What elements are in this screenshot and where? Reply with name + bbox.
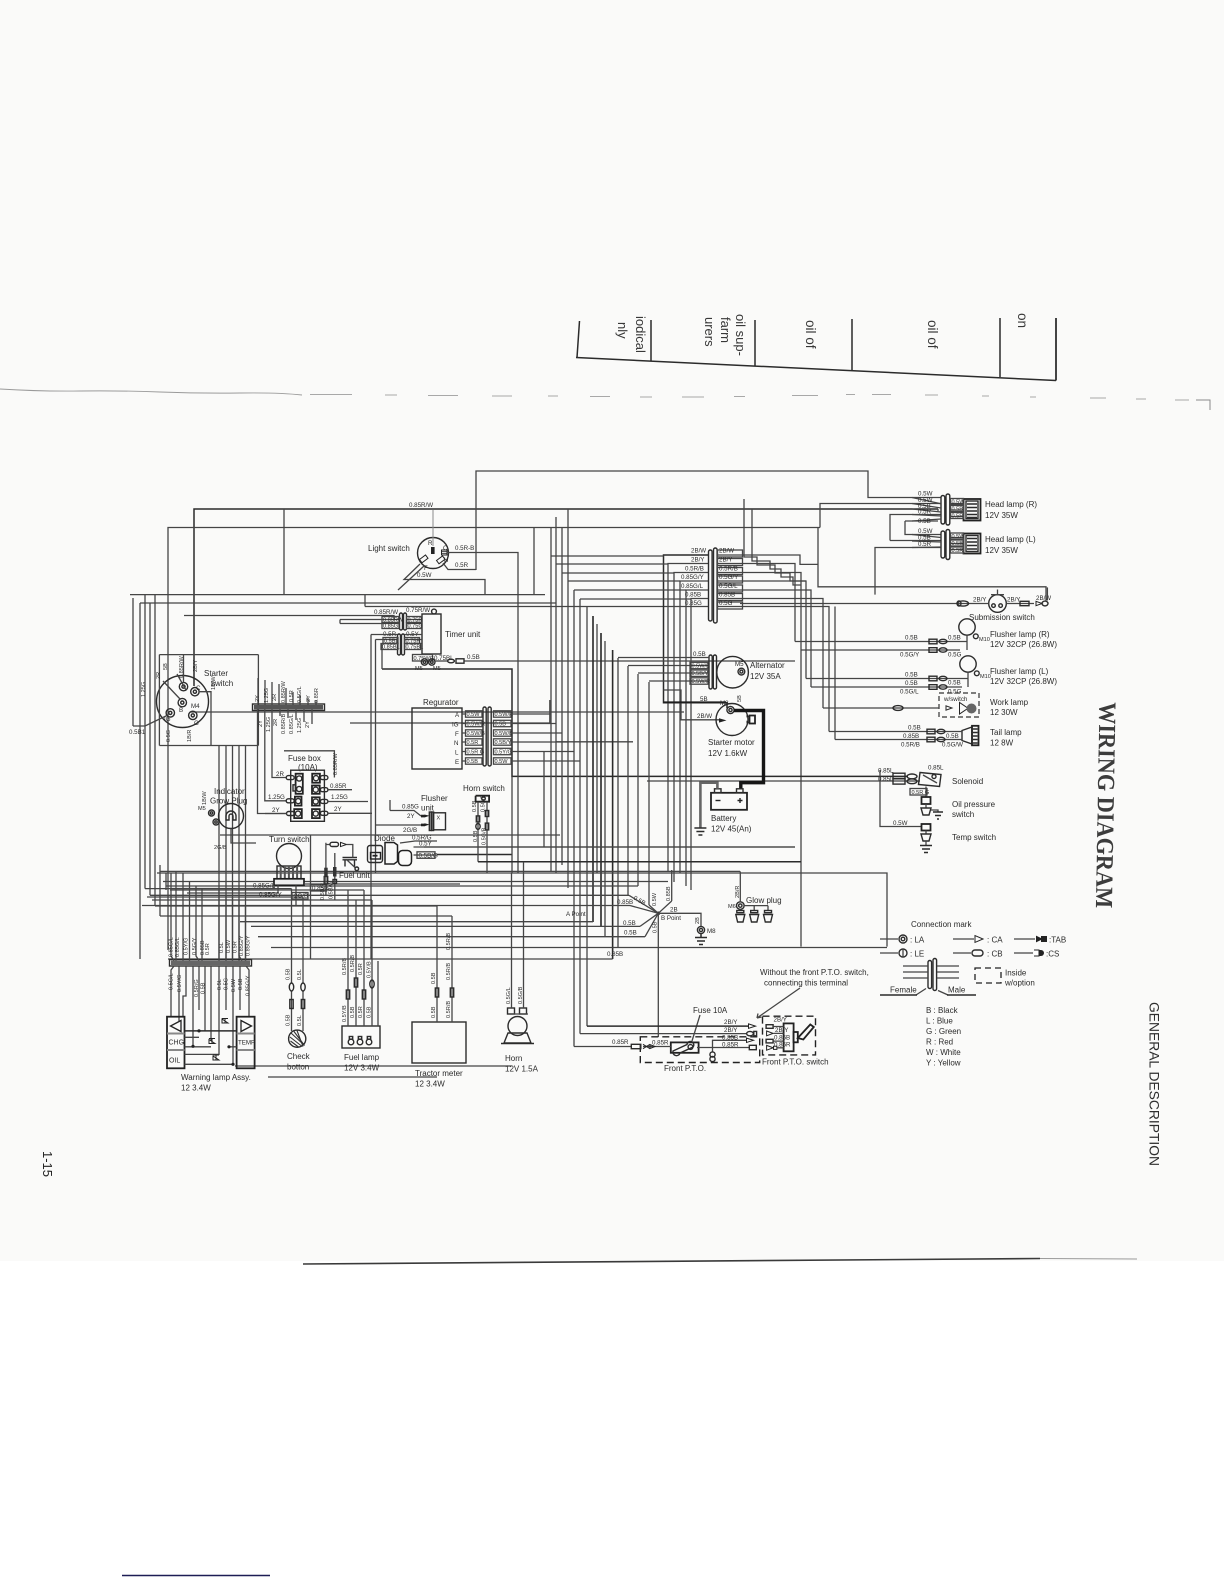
label 0.5B hrr boxed <box>951 506 964 513</box>
wire horn feeds <box>512 862 524 1008</box>
starter bar pins up <box>258 678 316 705</box>
bottom trunk y906 <box>155 905 437 907</box>
timer upper connector <box>400 613 407 630</box>
svg-text:W : White: W : White <box>926 1048 961 1057</box>
svg-text:0.85R/W: 0.85R/W <box>179 656 185 678</box>
svg-text:0.5G/Y: 0.5G/Y <box>900 652 919 659</box>
svg-text:0.5R: 0.5R <box>205 943 211 955</box>
svg-text:0.5W: 0.5W <box>652 892 658 906</box>
svg-text:iodical: iodical <box>633 316 648 353</box>
svg-text:0.5R/B: 0.5R/B <box>446 933 452 950</box>
svg-text:Warning lamp Assy.: Warning lamp Assy. <box>181 1073 251 1082</box>
svg-text:0.85R: 0.85R <box>652 1040 669 1047</box>
svg-text:0.5Y/B: 0.5Y/B <box>342 1005 348 1022</box>
junction dots warning <box>191 1029 234 1066</box>
svg-text:0.85R/B: 0.85R/B <box>281 714 287 734</box>
wire head lamp R to L 0.5B <box>905 509 942 535</box>
svg-text:0.5W: 0.5W <box>226 939 232 953</box>
svg-text:Y : Yellow: Y : Yellow <box>926 1059 961 1068</box>
svg-text:1-15: 1-15 <box>40 1151 55 1177</box>
svg-text:M5: M5 <box>433 666 441 672</box>
svg-text:0.85R: 0.85R <box>722 1042 739 1049</box>
svg-text:2Y: 2Y <box>306 695 312 702</box>
svg-text:0.5G/L: 0.5G/L <box>900 689 919 696</box>
svg-text:2B/Y: 2B/Y <box>719 557 732 564</box>
wire pto row1 2B/Y <box>587 1025 748 1027</box>
starter connector bar <box>253 704 325 711</box>
svg-text:N: N <box>454 740 458 747</box>
wire vertical x534 <box>533 528 535 595</box>
scan fold artifact dashes <box>0 389 302 395</box>
svg-text:0.5R: 0.5R <box>952 514 964 520</box>
wire B diag 1 <box>629 895 658 913</box>
flusher lamp L assembly <box>960 656 1058 686</box>
svg-text:B : Black: B : Black <box>926 1006 959 1015</box>
wire note arrow <box>757 988 800 1018</box>
wire 0.5R <box>443 563 476 570</box>
svg-text:Starter motor: Starter motor <box>708 738 755 747</box>
wire flusher R pin <box>966 635 968 650</box>
wire loop x544 <box>543 752 545 848</box>
front PTO switch assembly <box>762 1016 829 1066</box>
wire starter box right <box>257 655 259 746</box>
svg-text:0.5Y/G: 0.5Y/G <box>177 975 183 992</box>
svg-text:2B/W: 2B/W <box>691 548 706 555</box>
label 0.85BL boxed <box>381 644 400 651</box>
svg-text:0.5B: 0.5B <box>473 830 479 842</box>
regulator assembly <box>412 698 462 769</box>
svg-text:w/option: w/option <box>1004 979 1035 988</box>
svg-text:12 3.4W: 12 3.4W <box>415 1080 445 1089</box>
starter motor assembly <box>708 695 755 758</box>
wire fuse right row4 <box>328 812 372 814</box>
wire y847 long <box>424 846 795 848</box>
svg-text:Front P.T.O. switch: Front P.T.O. switch <box>762 1058 829 1067</box>
svg-text:: CB: : CB <box>987 950 1003 959</box>
connector pto row2 <box>747 1031 757 1035</box>
wire light switch lower diagonal <box>398 566 424 590</box>
wire row links to mid verticals <box>551 556 691 599</box>
timer pin circle <box>432 609 437 614</box>
bottom trunk y916 <box>160 915 452 917</box>
svg-text:0.5B: 0.5B <box>905 672 918 679</box>
svg-text:0.5B: 0.5B <box>693 651 706 658</box>
wire flusher R row2 <box>801 649 960 651</box>
tail lamp assembly <box>962 726 1022 748</box>
svg-text:0.5G: 0.5G <box>166 730 172 742</box>
svg-text:G : Green: G : Green <box>926 1027 961 1036</box>
oil pressure switch assembly <box>921 787 996 820</box>
legend LA <box>880 935 925 945</box>
diode symbol warning1 <box>209 1039 215 1044</box>
front PTO assembly <box>640 1037 759 1073</box>
connector C1 bars <box>709 548 718 623</box>
svg-text:2B: 2B <box>670 907 678 914</box>
svg-text:0.5G/Y: 0.5G/Y <box>192 937 198 955</box>
wire B diag 5 <box>640 913 658 926</box>
svg-text:2B/W: 2B/W <box>697 713 712 720</box>
wire check left <box>291 889 293 1031</box>
svg-text:0.5B: 0.5B <box>467 654 480 661</box>
svg-text:H: H <box>444 557 448 564</box>
bottom trunk y886 <box>166 885 638 887</box>
warning bar wires below <box>171 966 249 1064</box>
wire vertical x365 <box>364 595 366 607</box>
svg-text:0.85G/L: 0.85G/L <box>169 937 175 957</box>
wire B diag 3 <box>658 870 671 913</box>
bottom trunk y1077 <box>268 1076 437 1078</box>
svg-text::TAB: :TAB <box>1049 936 1066 945</box>
svg-text:2Y: 2Y <box>407 813 415 820</box>
svg-text:2B/Y: 2B/Y <box>691 557 704 564</box>
svg-text:0.5Y/B: 0.5Y/B <box>367 961 373 978</box>
regulator left labels <box>466 711 486 765</box>
svg-text:Inside: Inside <box>1005 969 1027 978</box>
svg-text:0.85G/Y: 0.85G/Y <box>259 892 282 899</box>
svg-text:E: E <box>455 759 459 766</box>
wire C1 row5 left <box>686 590 709 886</box>
svg-text:Female: Female <box>890 986 917 995</box>
wire fuse right row3 <box>328 801 368 803</box>
wire diode out 0.5B/G <box>414 854 438 856</box>
wire fuse right riser <box>697 1040 746 1047</box>
svg-text:5B: 5B <box>163 663 169 670</box>
svg-text:2Y: 2Y <box>258 720 264 727</box>
svg-text:0.85R/W: 0.85R/W <box>333 753 339 775</box>
svg-text:5B: 5B <box>700 696 708 703</box>
svg-text:0.85G: 0.85G <box>383 624 398 630</box>
fuse rect fuel d <box>333 880 337 884</box>
timer unit assembly <box>422 614 481 654</box>
svg-text:0.5R/B: 0.5R/B <box>719 566 738 573</box>
svg-text:0.5W/R: 0.5W/R <box>692 679 711 685</box>
B point junction <box>566 911 681 922</box>
wire head lamp L row3 <box>875 548 942 595</box>
light switch body <box>368 538 449 573</box>
svg-text:1B/W: 1B/W <box>211 676 217 690</box>
wire tail row1 <box>829 731 962 733</box>
wire fusebox top 0.85R/W <box>284 751 334 778</box>
temp switch assembly <box>920 824 996 853</box>
wire vertical x284 <box>283 509 285 595</box>
label 0.85R(W) boxed <box>382 617 404 624</box>
wire head lamp L row2 <box>890 540 942 542</box>
wire trunk y527 <box>168 528 820 951</box>
svg-text:0.85B: 0.85B <box>666 886 672 901</box>
svg-text:0.5R: 0.5R <box>289 690 295 702</box>
svg-text:0.5B/W: 0.5B/W <box>329 880 335 899</box>
svg-text:2B: 2B <box>695 917 701 924</box>
svg-text:0.5W/R: 0.5W/R <box>495 712 514 718</box>
label 0.5W/R alt <box>690 678 710 685</box>
svg-text:5B: 5B <box>737 695 743 702</box>
svg-text:1B/R: 1B/R <box>187 730 193 742</box>
svg-text:0.5R: 0.5R <box>358 963 364 975</box>
label 0.5B/Y alt <box>690 670 709 677</box>
wire 0.5R-B <box>447 553 518 595</box>
wire dark y669 to solenoid <box>382 669 908 776</box>
wire step y564 <box>717 555 818 564</box>
head lamp L assembly <box>941 530 1036 560</box>
svg-text:0.85B: 0.85B <box>617 899 633 906</box>
mid vertical bundle <box>551 556 649 1047</box>
svg-text:0.85B: 0.85B <box>607 951 623 958</box>
connector work <box>893 706 952 711</box>
svg-text:0.5B: 0.5B <box>908 725 921 732</box>
svg-text:Glow plug: Glow plug <box>746 896 782 905</box>
svg-text:12V 45(An): 12V 45(An) <box>711 825 752 834</box>
wire starter box bottom <box>159 745 258 747</box>
svg-text:Indicator: Indicator <box>214 787 245 796</box>
svg-text:M4: M4 <box>191 703 200 710</box>
connectors solenoid row1 <box>893 773 917 779</box>
label 0.5B/G boxed <box>417 852 438 860</box>
svg-text:Horn: Horn <box>505 1054 522 1063</box>
svg-text:0.5W: 0.5W <box>952 500 966 506</box>
wire fuel unit top fuse <box>326 843 330 895</box>
wire work lamp row <box>823 707 939 709</box>
wire tractor feeds <box>437 906 452 1022</box>
svg-text:1.25G: 1.25G <box>141 682 147 697</box>
wire flusher unit lower feed <box>376 824 421 826</box>
wire C1 row3 right long vertical x801 <box>717 573 801 947</box>
label 0.5R hlr boxed <box>951 547 964 554</box>
svg-text:0.5B: 0.5B <box>905 680 918 687</box>
wire flusher L row2 <box>811 686 962 688</box>
wire timer 0.5B long <box>464 660 795 662</box>
fuse capsule fuel <box>330 842 339 846</box>
svg-text:1B/W: 1B/W <box>202 791 208 805</box>
svg-text:F: F <box>455 731 459 738</box>
svg-text:0.85R/W: 0.85R/W <box>281 681 287 703</box>
fuse check right <box>301 1000 304 1009</box>
regulator connector bars <box>483 707 491 766</box>
wire regulator rows left <box>462 714 466 761</box>
wire temp switch feed 0.5W <box>880 770 921 827</box>
svg-text:0.5B: 0.5B <box>238 978 244 990</box>
diode symbol warning3 <box>222 1019 228 1024</box>
wire head lamp L fan <box>912 535 941 548</box>
wire battery minus to ground <box>700 783 717 828</box>
svg-text:: LA: : LA <box>910 936 925 945</box>
fuse fuel c <box>362 990 365 999</box>
svg-text:2Y: 2Y <box>255 695 261 702</box>
svg-text:0.5R: 0.5R <box>233 941 239 953</box>
svg-text:12V 35W: 12V 35W <box>985 546 1018 555</box>
svg-text:0.5B: 0.5B <box>948 680 961 687</box>
wire trunk y594.6 <box>130 594 545 596</box>
svg-text:0.5W: 0.5W <box>467 712 481 718</box>
svg-text:1.25G: 1.25G <box>264 688 270 703</box>
wire timer lower verticals <box>371 635 382 960</box>
svg-text:0.5W: 0.5W <box>231 978 237 992</box>
bottom trunk y871 <box>160 870 740 872</box>
wire alternator row4 <box>649 680 709 682</box>
bottom trunk y936 <box>258 936 645 938</box>
svg-text:0.85G/Y: 0.85G/Y <box>239 935 245 956</box>
svg-text:urers: urers <box>702 317 717 347</box>
head lamp L right stubs <box>950 538 964 550</box>
svg-text:0.5G/Y: 0.5G/Y <box>719 574 738 581</box>
wire glow feed <box>739 871 741 901</box>
svg-text:12 8W: 12 8W <box>990 739 1014 748</box>
svg-text:0.5B: 0.5B <box>905 635 918 642</box>
wire turn switch right 0.85G <box>304 883 460 885</box>
wire flusher L pin <box>967 672 969 687</box>
wire 2B/W starter conn <box>719 718 727 722</box>
check button assembly <box>287 1030 311 1071</box>
svg-text:Oil pressure: Oil pressure <box>952 800 996 809</box>
table fragment bottom slant <box>576 318 1056 381</box>
warning bar wires above <box>171 871 246 960</box>
wire fuel unit drop wires <box>334 853 336 900</box>
wire y741.8 <box>556 741 633 743</box>
svg-text:0.5W: 0.5W <box>495 759 509 765</box>
svg-text:0.5G/L: 0.5G/L <box>506 987 512 1004</box>
svg-text:0.5W: 0.5W <box>893 820 908 827</box>
svg-text:0.85G: 0.85G <box>685 600 702 607</box>
svg-text:Front P.T.O.: Front P.T.O. <box>664 1064 706 1073</box>
svg-text:0.5B/Y: 0.5B/Y <box>692 671 709 677</box>
horn assembly <box>501 1008 539 1074</box>
svg-text:0.5W: 0.5W <box>952 534 966 540</box>
svg-text:0.5B: 0.5B <box>367 1006 373 1018</box>
svg-text:0.85G: 0.85G <box>402 804 419 811</box>
label 0.85G boxed <box>382 623 399 630</box>
legend colors <box>926 1006 961 1068</box>
fuse fuel b <box>354 978 357 987</box>
wire turn switch left 0.85G/L <box>172 885 274 888</box>
wire C1 row6 right to work lamp <box>717 599 823 709</box>
arrow pto row3 <box>747 1038 754 1042</box>
wire turn switch left2 <box>187 885 278 893</box>
M8 terminal <box>697 926 716 935</box>
wire timer lower rows <box>371 635 422 644</box>
bottom trunk y900 <box>152 899 372 901</box>
timer LA connectors M5 <box>415 659 441 672</box>
connector fr1 <box>929 639 947 644</box>
wire starter box top <box>159 654 258 656</box>
wire B diag 6 <box>645 913 658 936</box>
wire 5B thick <box>664 701 727 703</box>
svg-text:0.85B: 0.85B <box>722 1035 738 1042</box>
wire 2B/W starter <box>664 690 720 720</box>
wire submission hook up <box>1046 587 1048 600</box>
svg-text:2B/Y: 2B/Y <box>775 1027 788 1034</box>
svg-text:0.5W/B: 0.5W/B <box>467 731 486 737</box>
svg-text:0.5G/B: 0.5G/B <box>482 827 488 845</box>
svg-text:2Y: 2Y <box>334 806 342 813</box>
glow plug assembly <box>728 896 782 922</box>
wire flusher L row1 <box>806 678 968 680</box>
svg-text:A Point: A Point <box>566 911 586 918</box>
svg-text:2B/W: 2B/W <box>1036 595 1051 602</box>
svg-text:12 30W: 12 30W <box>990 708 1018 717</box>
wire alternator row1 <box>618 657 709 659</box>
wire step x818 to submission <box>818 528 1046 601</box>
connector t1 <box>927 729 945 734</box>
fuse fuel a <box>346 990 349 999</box>
svg-text:1.25G: 1.25G <box>297 718 303 733</box>
wire mid verticals upper extensions <box>551 509 568 581</box>
wire head lamp R fan <box>912 498 941 522</box>
svg-text:w/switch: w/switch <box>943 696 968 703</box>
svg-text:0.75R/W: 0.75R/W <box>406 607 430 614</box>
svg-text:12V 32CP (26.8W): 12V 32CP (26.8W) <box>990 640 1057 649</box>
svg-text:0.85R: 0.85R <box>774 1041 791 1048</box>
svg-text:0.5G/W: 0.5G/W <box>942 742 963 749</box>
svg-text:unit: unit <box>421 804 435 813</box>
svg-text:0.5R: 0.5R <box>358 1006 364 1018</box>
svg-text:0.5G: 0.5G <box>948 652 962 659</box>
svg-text:R : Red: R : Red <box>926 1038 953 1047</box>
svg-text:12V 32CP (26.8W): 12V 32CP (26.8W) <box>990 677 1057 686</box>
svg-text:0.5G/L: 0.5G/L <box>719 583 738 590</box>
svg-text:: CA: : CA <box>987 936 1003 945</box>
svg-text:0.5R/B: 0.5R/B <box>350 955 356 972</box>
svg-text:Flusher lamp (L): Flusher lamp (L) <box>990 667 1049 676</box>
wire submission right <box>1006 603 1034 605</box>
head lamp R right stubs <box>950 504 964 517</box>
svg-text:Male: Male <box>948 986 966 995</box>
label 0.5R G boxed <box>910 789 929 797</box>
svg-text:X: X <box>437 816 441 822</box>
svg-text:0.85L: 0.85L <box>878 768 894 775</box>
wire warning cross <box>185 1030 237 1032</box>
svg-text:0.5R G: 0.5R G <box>467 750 485 756</box>
svg-text:0.5B: 0.5B <box>948 635 961 642</box>
svg-text:0.5W: 0.5W <box>417 572 432 579</box>
wire pto left feed 0.85R <box>574 1046 671 1048</box>
svg-text:12V 1.6kW: 12V 1.6kW <box>708 749 748 758</box>
svg-text:0.5W/B: 0.5W/B <box>495 731 514 737</box>
svg-text:0.5L: 0.5L <box>297 1015 303 1026</box>
connector fr2 <box>929 648 947 653</box>
svg-text:Work lamp: Work lamp <box>990 698 1029 707</box>
wire diode out top 0.5R/G <box>400 841 437 843</box>
horn switch assembly <box>463 784 505 873</box>
svg-text:Submission switch: Submission switch <box>969 613 1035 622</box>
wire staircase extra <box>752 509 801 585</box>
wire 2B right <box>658 913 701 926</box>
wire regulator rows right <box>511 714 580 761</box>
table fragment border columns <box>577 318 1056 381</box>
diode assembly <box>368 834 412 866</box>
label 2G/B boxed <box>292 893 308 901</box>
svg-text:2Y: 2Y <box>305 721 311 728</box>
svg-text:0.5R: 0.5R <box>918 509 932 516</box>
svg-text:0.85BL: 0.85BL <box>382 645 400 651</box>
footer underline <box>122 1575 270 1577</box>
svg-text:2B/Y: 2B/Y <box>724 1019 737 1026</box>
bottom trunk y895 <box>150 894 629 896</box>
svg-text:oil of: oil of <box>925 320 940 349</box>
alternator connector bar <box>709 655 717 689</box>
svg-text:0.85R: 0.85R <box>612 1039 629 1046</box>
wire starter IG diagonal <box>133 598 167 726</box>
svg-text:farm: farm <box>718 317 733 343</box>
svg-text:0.85G/L: 0.85G/L <box>253 883 276 890</box>
battery assembly <box>711 789 752 834</box>
wire solenoid row2 <box>647 780 920 782</box>
wire timer 0.5B out <box>435 660 448 662</box>
svg-text:Alternator: Alternator <box>750 661 785 670</box>
svg-text:Temp switch: Temp switch <box>952 833 996 842</box>
svg-text:Tractor meter: Tractor meter <box>415 1069 463 1078</box>
svg-text:0.5B: 0.5B <box>467 759 479 765</box>
svg-text:M8: M8 <box>720 700 729 707</box>
svg-text:M5: M5 <box>198 806 206 812</box>
